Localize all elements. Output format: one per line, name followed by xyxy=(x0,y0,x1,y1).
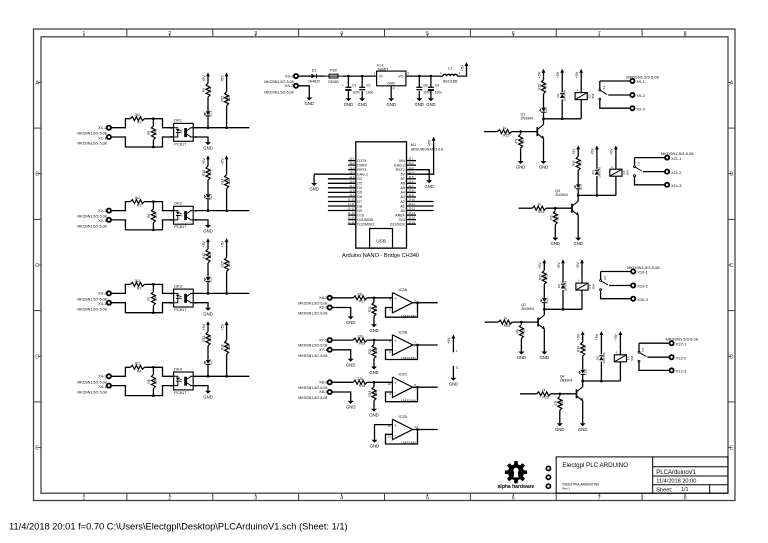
svg-text:J2-4: J2-4 xyxy=(408,170,414,174)
svg-text:X7-1: X7-1 xyxy=(319,347,328,352)
svg-text:GND: GND xyxy=(574,241,583,246)
svg-text:R25: R25 xyxy=(504,324,510,328)
svg-text:J2-8: J2-8 xyxy=(408,189,414,193)
svg-text:GND: GND xyxy=(203,229,212,234)
svg-text:J1-15: J1-15 xyxy=(348,220,355,224)
svg-text:MKDSN1,5/2-5,08: MKDSN1,5/2-5,08 xyxy=(298,354,327,358)
svg-text:+5V: +5V xyxy=(610,148,614,155)
svg-text:2k2: 2k2 xyxy=(208,87,212,92)
svg-text:10k: 10k xyxy=(227,261,231,267)
svg-text:BS2118M: BS2118M xyxy=(443,80,457,84)
svg-text:+5V: +5V xyxy=(460,64,464,71)
svg-text:J1-9: J1-9 xyxy=(349,193,355,197)
svg-text:J2-6: J2-6 xyxy=(408,179,414,183)
svg-text:A3: A3 xyxy=(400,195,404,199)
svg-text:R15: R15 xyxy=(221,261,225,267)
svg-text:R23: R23 xyxy=(503,133,509,137)
svg-text:D: D xyxy=(729,354,733,360)
svg-text:10k: 10k xyxy=(154,379,158,385)
svg-text:J2-2: J2-2 xyxy=(408,161,414,165)
svg-text:D2: D2 xyxy=(556,94,560,98)
svg-text:MKDSN1,5/2-5,08: MKDSN1,5/2-5,08 xyxy=(77,390,106,394)
svg-text:10k: 10k xyxy=(374,349,378,355)
svg-text:J2-12: J2-12 xyxy=(408,207,415,211)
svg-text:R1: R1 xyxy=(137,121,141,125)
svg-text:1N4148: 1N4148 xyxy=(602,352,606,363)
svg-text:X10-2: X10-2 xyxy=(637,284,648,289)
svg-text:J1-13: J1-13 xyxy=(348,211,355,215)
svg-text:DK080: DK080 xyxy=(328,80,338,84)
svg-text:D2: D2 xyxy=(357,177,362,181)
svg-text:GND: GND xyxy=(540,355,549,360)
svg-text:XS-1: XS-1 xyxy=(285,73,295,78)
svg-text:GND: GND xyxy=(344,102,353,107)
svg-text:10k: 10k xyxy=(154,130,158,136)
svg-text:11: 11 xyxy=(456,366,459,370)
svg-text:R2: R2 xyxy=(137,204,141,208)
svg-text:2k2: 2k2 xyxy=(208,253,212,258)
svg-text:R7: R7 xyxy=(147,296,151,300)
svg-text:A4: A4 xyxy=(400,191,404,195)
svg-text:GND: GND xyxy=(203,394,212,399)
svg-text:X7-2: X7-2 xyxy=(319,337,328,342)
svg-text:Rev.1: Rev.1 xyxy=(562,486,570,490)
svg-text:470: 470 xyxy=(544,274,548,280)
svg-text:R21: R21 xyxy=(368,306,372,312)
svg-text:D4: D4 xyxy=(357,186,362,190)
svg-text:100u: 100u xyxy=(435,90,443,94)
svg-text:DK3: DK3 xyxy=(174,283,183,288)
svg-text:+5V: +5V xyxy=(576,262,580,269)
svg-text:D1: D1 xyxy=(312,69,317,73)
svg-text:R34: R34 xyxy=(577,346,581,352)
svg-text:R27: R27 xyxy=(521,138,525,144)
svg-text:+5V: +5V xyxy=(202,323,206,330)
svg-text:GND: GND xyxy=(346,362,355,367)
svg-text:X1-2: X1-2 xyxy=(98,125,107,130)
svg-text:R6: R6 xyxy=(147,214,151,218)
svg-text:GND: GND xyxy=(426,102,435,107)
svg-text:1k: 1k xyxy=(504,317,508,321)
svg-text:R12: R12 xyxy=(202,336,206,342)
svg-text:R32: R32 xyxy=(572,160,576,166)
svg-text:R3: R3 xyxy=(137,286,141,290)
svg-text:C: C xyxy=(35,263,39,269)
svg-text:J2-14: J2-14 xyxy=(408,216,415,220)
svg-text:R5: R5 xyxy=(147,131,151,135)
svg-text:C1: C1 xyxy=(352,84,357,88)
svg-text:GND: GND xyxy=(516,165,525,170)
svg-text:R14: R14 xyxy=(221,178,225,184)
svg-text:EAG.2: EAG.2 xyxy=(394,163,405,167)
svg-text:R11: R11 xyxy=(202,253,206,259)
svg-text:L1: L1 xyxy=(448,67,452,71)
svg-text:470: 470 xyxy=(578,161,582,167)
svg-text:+5V: +5V xyxy=(202,240,206,247)
svg-text:1k: 1k xyxy=(542,388,546,392)
svg-text:LD6: LD6 xyxy=(545,297,549,303)
svg-text:100u: 100u xyxy=(352,90,360,94)
svg-text:Sheet:: Sheet: xyxy=(656,487,673,493)
svg-text:X12-3: X12-3 xyxy=(676,369,687,374)
svg-text:GND: GND xyxy=(539,165,548,170)
svg-text:10k: 10k xyxy=(154,296,158,302)
svg-text:+5V: +5V xyxy=(220,323,224,330)
svg-text:X11-1: X11-1 xyxy=(671,156,682,161)
svg-text:GND: GND xyxy=(346,405,355,410)
svg-text:+: + xyxy=(424,84,426,88)
svg-text:LD7: LD7 xyxy=(579,183,583,189)
svg-text:+5V: +5V xyxy=(538,262,542,269)
svg-text:MKDSN1,5/2-5,08: MKDSN1,5/2-5,08 xyxy=(77,225,106,229)
svg-text:+5V: +5V xyxy=(447,337,451,344)
svg-text:R26: R26 xyxy=(542,396,548,400)
svg-text:47k: 47k xyxy=(515,138,519,144)
svg-text:LD4: LD4 xyxy=(209,359,213,365)
svg-text:IC2D: IC2D xyxy=(399,414,408,419)
svg-text:+5V: +5V xyxy=(575,71,579,78)
svg-text:IC2C: IC2C xyxy=(399,372,408,377)
svg-text:PC817: PC817 xyxy=(174,390,187,395)
svg-text:D5: D5 xyxy=(595,356,599,360)
svg-text:LD2: LD2 xyxy=(209,193,213,199)
svg-text:DK2: DK2 xyxy=(174,201,183,206)
svg-text:A: A xyxy=(730,80,734,86)
svg-text:+5V: +5V xyxy=(202,158,206,165)
svg-text:GND: GND xyxy=(203,311,212,316)
svg-text:2k2: 2k2 xyxy=(135,279,141,283)
svg-text:R23: R23 xyxy=(368,391,372,397)
svg-text:R28: R28 xyxy=(556,215,560,221)
svg-text:J1-5: J1-5 xyxy=(349,175,355,179)
svg-text:X6-2: X6-2 xyxy=(319,295,328,300)
svg-text:D11/MOB: D11/MOB xyxy=(357,218,373,222)
svg-text:GND: GND xyxy=(369,328,378,333)
svg-text:LD1: LD1 xyxy=(209,111,213,117)
svg-text:GND: GND xyxy=(369,412,378,417)
svg-text:D3: D3 xyxy=(557,284,561,288)
svg-text:GND: GND xyxy=(369,370,378,375)
svg-text:+5V: +5V xyxy=(202,75,206,82)
svg-text:R29: R29 xyxy=(522,328,526,334)
svg-text:GND: GND xyxy=(387,82,395,86)
svg-text:E: E xyxy=(730,446,734,452)
svg-text:B: B xyxy=(35,172,39,178)
svg-text:A1: A1 xyxy=(400,204,404,208)
svg-text:D13/SCK: D13/SCK xyxy=(390,223,406,227)
svg-text:X6-1: X6-1 xyxy=(319,305,328,310)
svg-text:LD5: LD5 xyxy=(544,107,548,113)
svg-text:R13: R13 xyxy=(221,96,225,102)
svg-text:22k: 22k xyxy=(357,335,363,339)
svg-text:GND: GND xyxy=(203,146,212,151)
svg-text:X8-1: X8-1 xyxy=(319,389,328,394)
svg-text:J1-10: J1-10 xyxy=(348,198,355,202)
svg-text:3V3: 3V3 xyxy=(398,218,404,222)
svg-text:J1-4: J1-4 xyxy=(349,170,355,174)
svg-text:X12-2: X12-2 xyxy=(676,355,687,360)
svg-text:S5A: S5A xyxy=(592,284,596,289)
svg-text:2k2: 2k2 xyxy=(135,362,141,366)
svg-text:MKDSN1,5/2-5,08: MKDSN1,5/2-5,08 xyxy=(298,396,327,400)
svg-text:EAG.1: EAG.1 xyxy=(357,173,368,177)
svg-text:R22: R22 xyxy=(368,348,372,354)
svg-text:X10-3: X10-3 xyxy=(637,297,648,302)
svg-text:R19: R19 xyxy=(359,384,365,388)
svg-text:X9-2: X9-2 xyxy=(636,93,645,98)
svg-text:1k: 1k xyxy=(537,203,541,207)
svg-text:+5V: +5V xyxy=(220,75,224,82)
svg-text:VIN: VIN xyxy=(399,159,405,163)
svg-text:USB: USB xyxy=(376,238,386,244)
svg-text:GND: GND xyxy=(449,381,458,386)
svg-text:IC2A: IC2A xyxy=(399,287,408,292)
svg-text:+5V: +5V xyxy=(595,333,599,340)
svg-text:2k2: 2k2 xyxy=(208,336,212,341)
svg-text:1N4148: 1N4148 xyxy=(597,167,601,178)
svg-text:X10-1: X10-1 xyxy=(637,270,648,275)
svg-text:E: E xyxy=(35,446,39,452)
svg-text:C: C xyxy=(729,263,733,269)
svg-text:D4: D4 xyxy=(591,170,595,174)
svg-text:GND: GND xyxy=(555,427,564,432)
svg-text:PC817: PC817 xyxy=(174,224,187,229)
svg-text:D: D xyxy=(35,354,39,360)
svg-text:+5V: +5V xyxy=(614,333,618,340)
svg-text:X11-3: X11-3 xyxy=(671,183,682,188)
svg-text:1/1: 1/1 xyxy=(681,487,689,493)
svg-text:10k: 10k xyxy=(374,306,378,312)
svg-text:47k: 47k xyxy=(516,329,520,335)
svg-text:GND: GND xyxy=(305,101,314,106)
svg-text:2N3904: 2N3904 xyxy=(521,307,534,311)
svg-text:D7: D7 xyxy=(357,200,362,204)
svg-text:MKDSN1,5/2-5,08: MKDSN1,5/2-5,08 xyxy=(264,90,293,94)
svg-text:J2-13: J2-13 xyxy=(408,211,415,215)
svg-text:J1-1: J1-1 xyxy=(349,157,355,161)
svg-text:MKDSN1,5/2-5,08: MKDSN1,5/2-5,08 xyxy=(77,142,106,146)
svg-text:K4: K4 xyxy=(641,347,645,351)
svg-text:10k: 10k xyxy=(227,179,231,185)
svg-text:R16: R16 xyxy=(221,344,225,350)
svg-text:J2-9: J2-9 xyxy=(408,193,414,197)
svg-text:ARDUINONANO-0.8: ARDUINONANO-0.8 xyxy=(411,148,443,152)
svg-text:A0: A0 xyxy=(400,209,404,213)
svg-text:X2-2: X2-2 xyxy=(98,208,107,213)
svg-text:10k: 10k xyxy=(227,344,231,350)
svg-text:R9: R9 xyxy=(202,88,206,92)
svg-text:J1-12: J1-12 xyxy=(348,207,355,211)
svg-text:J1-14: J1-14 xyxy=(348,216,355,220)
svg-text:R18: R18 xyxy=(359,342,365,346)
svg-text:47k: 47k xyxy=(549,215,553,221)
svg-text:J2-1: J2-1 xyxy=(408,157,414,161)
svg-text:D0RX: D0RX xyxy=(357,163,367,167)
svg-text:GND: GND xyxy=(551,241,560,246)
svg-text:PC817: PC817 xyxy=(174,141,187,146)
svg-text:RST1: RST1 xyxy=(357,168,366,172)
svg-text:J2-5: J2-5 xyxy=(408,175,414,179)
svg-text:+5V: +5V xyxy=(577,333,581,340)
svg-text:2N3904: 2N3904 xyxy=(555,193,568,197)
svg-text:Electgpl PLC ARDUINO: Electgpl PLC ARDUINO xyxy=(562,462,628,469)
svg-text:R17: R17 xyxy=(359,299,365,303)
svg-text:IC2B: IC2B xyxy=(399,329,408,334)
svg-text:X4-1: X4-1 xyxy=(98,384,107,389)
svg-text:GND: GND xyxy=(358,102,367,107)
svg-text:GND: GND xyxy=(309,187,318,192)
svg-text:1k: 1k xyxy=(503,126,507,130)
svg-text:D1TX: D1TX xyxy=(357,159,367,163)
svg-text:K1: K1 xyxy=(602,85,606,89)
svg-text:22k: 22k xyxy=(357,377,363,381)
svg-text:GND: GND xyxy=(517,355,526,360)
svg-text:470: 470 xyxy=(544,84,548,90)
svg-text:C4: C4 xyxy=(435,84,440,88)
svg-text:J1-3: J1-3 xyxy=(349,166,355,170)
svg-text:M1: M1 xyxy=(411,143,416,147)
svg-text:LD3: LD3 xyxy=(209,276,213,282)
svg-text:5V: 5V xyxy=(400,173,405,177)
svg-text:A6: A6 xyxy=(400,182,404,186)
svg-text:2k2: 2k2 xyxy=(135,113,141,117)
svg-text:GND: GND xyxy=(370,443,379,448)
svg-text:R30: R30 xyxy=(560,400,564,406)
svg-text:J1-8: J1-8 xyxy=(349,189,355,193)
svg-text:X9-1: X9-1 xyxy=(636,79,645,84)
svg-text:GND: GND xyxy=(425,184,434,189)
svg-text:R10: R10 xyxy=(202,170,206,176)
svg-text:X8-2: X8-2 xyxy=(319,380,328,385)
svg-text:VO: VO xyxy=(398,75,404,79)
svg-text:2k2: 2k2 xyxy=(135,196,141,200)
svg-text:J2-3: J2-3 xyxy=(408,166,414,170)
svg-text:J1-7: J1-7 xyxy=(349,184,355,188)
svg-text:X1-1: X1-1 xyxy=(98,135,107,140)
svg-text:X11-2: X11-2 xyxy=(671,170,682,175)
svg-text:A7: A7 xyxy=(400,177,404,181)
svg-text:K3: K3 xyxy=(637,162,641,166)
svg-text:R33: R33 xyxy=(538,274,542,280)
svg-text:R4: R4 xyxy=(137,369,141,373)
svg-text:D9: D9 xyxy=(357,209,362,213)
svg-text:D8: D8 xyxy=(357,204,362,208)
svg-text:2k2: 2k2 xyxy=(208,170,212,175)
svg-text:alpha hardware: alpha hardware xyxy=(498,484,535,490)
svg-text:100n: 100n xyxy=(366,90,374,94)
svg-text:AREF: AREF xyxy=(395,213,405,217)
svg-text:J1-6: J1-6 xyxy=(349,179,355,183)
svg-text:PC817: PC817 xyxy=(174,307,187,312)
svg-text:+5V: +5V xyxy=(591,148,595,155)
svg-text:R8: R8 xyxy=(147,379,151,383)
svg-text:A2: A2 xyxy=(400,200,404,204)
svg-text:GND: GND xyxy=(578,427,587,432)
svg-text:7805T: 7805T xyxy=(377,67,389,72)
svg-text:22k: 22k xyxy=(357,292,363,296)
svg-text:J1-11: J1-11 xyxy=(348,202,355,206)
svg-text:DK4: DK4 xyxy=(174,366,183,371)
svg-text:J2-7: J2-7 xyxy=(408,184,414,188)
svg-text:X4-2: X4-2 xyxy=(98,374,107,379)
svg-text:S5A: S5A xyxy=(630,356,634,361)
svg-text:PS0: PS0 xyxy=(330,69,337,73)
svg-text:R24: R24 xyxy=(538,210,544,214)
svg-text:A5: A5 xyxy=(400,186,404,190)
svg-text:D12/MISO: D12/MISO xyxy=(357,223,374,227)
svg-text:D6: D6 xyxy=(357,195,362,199)
svg-text:VI: VI xyxy=(379,75,383,79)
svg-text:+5V: +5V xyxy=(427,139,431,146)
svg-text:+: + xyxy=(342,84,344,88)
svg-text:+5V: +5V xyxy=(572,148,576,155)
svg-text:10k: 10k xyxy=(154,213,158,219)
svg-text:1N4148: 1N4148 xyxy=(564,281,568,292)
svg-text:A: A xyxy=(35,80,39,86)
svg-text:11/4/2018 20:01 f=0.70 C:\Us: 11/4/2018 20:01 f=0.70 C:\Users\Electgpl… xyxy=(9,522,348,532)
svg-text:MKDSN1,5/2-5,08: MKDSN1,5/2-5,08 xyxy=(298,312,327,316)
svg-text:+5V: +5V xyxy=(537,71,541,78)
svg-text:D5: D5 xyxy=(357,191,362,195)
svg-text:X3-1: X3-1 xyxy=(98,301,107,306)
svg-text:1N4820: 1N4820 xyxy=(308,80,320,84)
svg-text:D10: D10 xyxy=(357,213,364,217)
svg-text:11/4/2018 20:00: 11/4/2018 20:00 xyxy=(656,479,696,485)
svg-text:J1-2: J1-2 xyxy=(349,161,355,165)
svg-text:47k: 47k xyxy=(554,400,558,406)
svg-text:+5V: +5V xyxy=(220,158,224,165)
svg-text:RST2: RST2 xyxy=(396,168,405,172)
svg-text:1N4148: 1N4148 xyxy=(563,90,567,101)
svg-text:J2-15: J2-15 xyxy=(408,220,415,224)
svg-text:+5V: +5V xyxy=(556,71,560,78)
svg-text:X9-3: X9-3 xyxy=(636,106,645,111)
svg-text:J2-11: J2-11 xyxy=(408,202,415,206)
svg-text:D3: D3 xyxy=(357,182,362,186)
svg-text:K2: K2 xyxy=(603,276,607,280)
svg-text:GND: GND xyxy=(387,102,396,107)
svg-text:X3-2: X3-2 xyxy=(98,291,107,296)
svg-text:PLCArduinoV1: PLCArduinoV1 xyxy=(656,470,696,476)
svg-text:C2: C2 xyxy=(366,84,371,88)
svg-text:B: B xyxy=(730,172,734,178)
svg-text:S5A: S5A xyxy=(591,93,595,98)
svg-text:XS-2: XS-2 xyxy=(285,83,295,88)
svg-text:MKDSN1,5/2-5,08: MKDSN1,5/2-5,08 xyxy=(77,307,106,311)
svg-text:X2-1: X2-1 xyxy=(98,218,107,223)
svg-text:10k: 10k xyxy=(374,391,378,397)
svg-text:2N3904: 2N3904 xyxy=(560,379,573,383)
svg-text:J2-10: J2-10 xyxy=(408,198,415,202)
svg-text:X12-1: X12-1 xyxy=(676,341,687,346)
svg-text:R31: R31 xyxy=(538,84,542,90)
svg-text:S5A: S5A xyxy=(626,170,630,175)
svg-text:470: 470 xyxy=(583,346,587,352)
svg-text:2N3904: 2N3904 xyxy=(521,116,534,120)
svg-text:+5V: +5V xyxy=(220,240,224,247)
svg-text:DK1: DK1 xyxy=(174,118,183,123)
svg-text:+5V: +5V xyxy=(557,262,561,269)
svg-text:LD8: LD8 xyxy=(583,369,587,375)
svg-text:GND: GND xyxy=(415,102,424,107)
svg-text:GND: GND xyxy=(346,320,355,325)
svg-text:10k: 10k xyxy=(227,96,231,102)
svg-text:Arduino NANO - Bridge CH340: Arduino NANO - Bridge CH340 xyxy=(342,253,419,259)
